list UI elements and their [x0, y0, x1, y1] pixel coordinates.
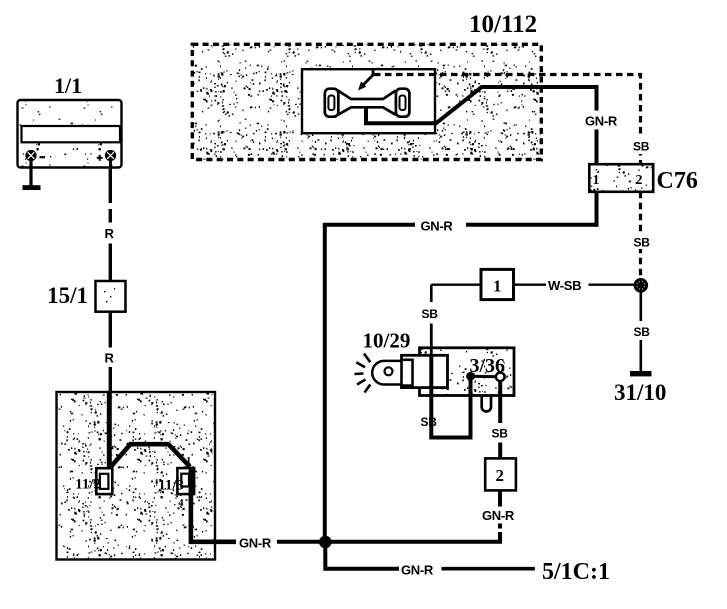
wire GN-R to 5/1C:1 [325, 544, 535, 569]
label 1/1 [54, 73, 82, 98]
wire SB to ground [639, 291, 642, 372]
svg-text:R: R [105, 351, 115, 366]
wire label W-SB [548, 278, 581, 293]
svg-text:10/29: 10/29 [363, 329, 411, 353]
svg-text:11/3: 11/3 [158, 478, 184, 494]
fusible link element [325, 89, 410, 124]
connector prong [482, 397, 491, 412]
junction node W-SB/SB [634, 279, 647, 292]
wire label R [105, 226, 115, 241]
label 11/3 [158, 478, 184, 494]
wire R inside fuse box [107, 393, 112, 469]
ground 31/10 [630, 371, 652, 376]
wire R 15/1 to fusebox [109, 312, 112, 393]
wire label GN-R [421, 219, 454, 234]
wire label SB [633, 140, 650, 154]
svg-text:1: 1 [186, 456, 191, 467]
svg-text:SB: SB [633, 140, 650, 154]
label 3/36 [470, 355, 506, 377]
svg-text:15/1: 15/1 [47, 283, 88, 308]
svg-text:2: 2 [636, 173, 643, 188]
switch 3/36 [466, 372, 504, 381]
svg-text:GN-R: GN-R [482, 508, 515, 523]
wire GN-R top horizontal [323, 192, 597, 227]
switch housing 3/36 [420, 348, 515, 396]
label 15/1 [47, 283, 88, 308]
wire SB from box 1 to bulb [431, 285, 481, 356]
relay box 1 [481, 269, 514, 299]
ground (battery negative) [23, 161, 41, 190]
svg-text:1: 1 [493, 277, 502, 296]
svg-text:SB: SB [634, 325, 651, 339]
label 10/29 [363, 329, 411, 353]
wire label GN-R [482, 508, 515, 523]
svg-text:GN-R: GN-R [401, 563, 434, 578]
bulb socket [402, 355, 448, 387]
bulb 10/29 [372, 360, 412, 386]
wire label SB [634, 325, 651, 339]
battery 1/1 [18, 100, 122, 173]
svg-text:R: R [105, 226, 115, 241]
pin label 4 [178, 498, 184, 509]
label C76 [657, 168, 698, 194]
wire GN-R from 11/3 to junction [191, 470, 325, 542]
svg-text:SB: SB [492, 427, 509, 441]
connector box 2 [485, 458, 516, 490]
svg-text:SB: SB [422, 307, 439, 321]
wire W-SB [514, 284, 636, 286]
wire label GN-R [585, 114, 618, 129]
svg-text:C76: C76 [657, 168, 698, 194]
label 10/112 [469, 11, 537, 38]
fuse 15/1 [96, 281, 126, 312]
fuse holder box [302, 69, 435, 133]
wire R battery to 15/1 [109, 167, 112, 281]
svg-text:1: 1 [593, 173, 600, 188]
svg-text:11/2: 11/2 [75, 477, 101, 493]
wire label R [105, 351, 115, 366]
wire label SB [421, 415, 438, 429]
connector 11/2 [96, 468, 112, 494]
connector C76 [589, 164, 653, 192]
fuse box (stippled) [57, 392, 216, 560]
wire SB bulb to switch [429, 355, 470, 437]
wire label GN-R [239, 536, 272, 551]
wire GN-R box 2 to junction [329, 491, 500, 542]
wire SB switch to box 2 [498, 381, 502, 458]
svg-text:1/1: 1/1 [54, 73, 82, 98]
svg-text:GN-R: GN-R [239, 536, 272, 551]
label 5/1C:1 [542, 559, 610, 585]
connector 11/3 [177, 468, 194, 494]
svg-text:10/112: 10/112 [469, 11, 537, 38]
wire GN-R trunk vertical [323, 225, 327, 542]
svg-text:GN-R: GN-R [421, 219, 454, 234]
svg-text:3/36: 3/36 [470, 355, 506, 377]
wire label GN-R [401, 563, 434, 578]
wire label SB [492, 427, 509, 441]
wire GN-R fuse to C76 pin 1 [366, 87, 597, 165]
actuation arrow [358, 71, 373, 91]
label 31/10 [614, 380, 666, 405]
wire bridge 11/2 to 11/3 [109, 444, 190, 468]
svg-text:2: 2 [496, 466, 505, 485]
svg-text:5/1C:1: 5/1C:1 [542, 559, 610, 585]
dashed firewall box 10/112 [192, 44, 541, 159]
svg-text:GN-R: GN-R [585, 114, 618, 129]
dashed wire SB below C76 [631, 192, 651, 280]
wire label SB [634, 236, 651, 250]
wire label SB [422, 307, 439, 321]
svg-text:4: 4 [178, 498, 184, 509]
svg-text:31/10: 31/10 [614, 380, 666, 405]
pin label 1 [186, 456, 191, 467]
junction node [319, 536, 332, 549]
svg-text:SB: SB [634, 236, 651, 250]
light rays [355, 354, 371, 393]
svg-text:SB: SB [421, 415, 438, 429]
svg-text:W-SB: W-SB [548, 278, 581, 293]
dashed wire SB to C76 pin 2 [374, 75, 651, 165]
label 11/2 [75, 477, 101, 493]
